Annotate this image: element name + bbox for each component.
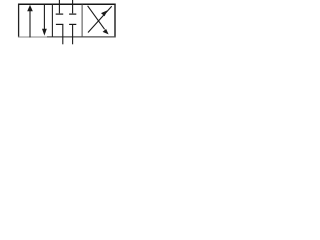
valve envelope left edge xyxy=(18,4,20,38)
left position: down-flow arrow shaft xyxy=(43,5,45,31)
blocked port B dash xyxy=(69,13,76,15)
right position: cross-flow line (bottom-left to top-right) xyxy=(88,6,112,32)
right position: cross-flow line (top-left to bottom-right) xyxy=(88,6,105,30)
right position: arrowhead pointing up-right xyxy=(101,10,107,16)
right position: arrowhead pointing down-right xyxy=(103,29,109,35)
left position: down-flow arrowhead xyxy=(42,29,47,36)
port line P (bottom left, out of centre position) xyxy=(62,25,64,44)
divider between centre and right position xyxy=(81,4,83,37)
blocked port P dash xyxy=(56,23,64,25)
blocked port A dash xyxy=(56,13,64,15)
left position: up-flow arrow shaft xyxy=(29,10,31,38)
port line A (top left, into centre position) xyxy=(58,0,60,13)
valve envelope right edge xyxy=(114,4,116,38)
valve envelope top edge xyxy=(18,3,116,5)
port line T (bottom right, out of centre position) xyxy=(72,25,74,44)
valve envelope bottom edge (left, lighter) xyxy=(18,36,47,38)
left position: up-flow arrowhead xyxy=(27,5,33,11)
port line B (top right, into centre position) xyxy=(72,0,74,13)
divider between left and centre position xyxy=(51,4,53,37)
valve envelope bottom edge (right, darker) xyxy=(47,36,116,38)
blocked port T dash xyxy=(69,23,76,25)
